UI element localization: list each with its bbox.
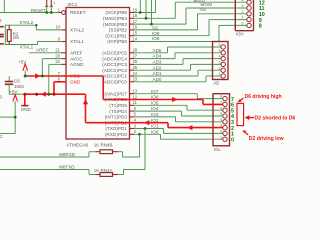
wire GND rail highlighted — [25, 93, 86, 95]
wire XTAL2 left vertical — [4, 25, 6, 45]
wire SS/PB2 net — [134, 29, 197, 31]
pin 27 (ADC4)PC4 — [130, 58, 135, 60]
wire XTAL2 net — [5, 24, 36, 26]
wire IO1/PD1 net — [134, 128, 163, 130]
connector AD — [213, 42, 229, 80]
IC ZIC1 ATMEGA8 body — [66, 8, 130, 140]
svg-text:(T0)PD4: (T0)PD4 — [109, 109, 127, 114]
wire IO9/PB1 net — [134, 35, 209, 37]
pin 14 (ICP)PB0 — [130, 41, 135, 43]
svg-text:IOH: IOH — [236, 31, 243, 36]
wire GND pin 8 highlighted — [54, 81, 67, 83]
svg-text:2: 2 — [220, 130, 222, 134]
svg-text:XTAL2: XTAL2 — [20, 20, 34, 25]
wire AD4/PC4 net — [134, 58, 175, 60]
wire M8TXD net — [0, 169, 89, 171]
resistor R2 1M — [8, 25, 10, 29]
svg-text:AD5: AD5 — [153, 48, 162, 53]
pin 9 XTAL1 — [61, 41, 66, 43]
wire XTAL1 net — [5, 44, 37, 46]
annotation arrow from D2 — [244, 132, 248, 135]
wire MOSI/PB3 net — [134, 23, 186, 25]
connector IOL pin 3 circle — [223, 125, 227, 129]
junction +5V net — [14, 116, 17, 119]
svg-text:2: 2 — [219, 66, 221, 70]
pin 4 (INT0)PD2 — [130, 122, 135, 124]
svg-text:(MISO)PB4: (MISO)PB4 — [103, 16, 127, 21]
connector IOH — [234, 0, 236, 31]
svg-text:AREF: AREF — [36, 48, 48, 53]
ground symbol GND — [24, 94, 26, 105]
svg-text:AD: AD — [214, 80, 220, 85]
pin 25 (ADC2)PC2 — [130, 69, 135, 71]
wire SCK/PB5 net with ICSP riser — [134, 12, 155, 14]
svg-text:AVCC: AVCC — [70, 56, 83, 61]
pin 7 VCC — [61, 75, 66, 77]
svg-text:21: 21 — [55, 48, 60, 53]
pin 12 (AIN0)PD6 — [130, 99, 135, 101]
svg-text:24: 24 — [132, 71, 137, 76]
wire IO8/PB0 net — [134, 41, 219, 43]
connector IOL — [213, 94, 230, 146]
pin 16 (SS)PB2 — [130, 29, 135, 31]
svg-text:1K RN4A: 1K RN4A — [94, 168, 113, 173]
svg-text:100n: 100n — [14, 84, 25, 89]
wire MISO/PB4 net — [134, 17, 175, 19]
wire IO0/PD0 net — [134, 133, 160, 135]
junction +5V rail — [24, 75, 27, 78]
svg-text:IO9: IO9 — [152, 31, 160, 36]
wire RN4A to PD1 — [118, 174, 123, 176]
wire +5V net exits left — [0, 133, 15, 135]
pin 10 XTAL2 — [61, 29, 66, 31]
svg-text:5: 5 — [219, 49, 221, 53]
pin 18 (MISO)PB4 — [130, 17, 135, 19]
connector AD pin 5 circle — [221, 51, 225, 55]
annotation box D2 shorted to D6 — [237, 103, 244, 125]
wire IOL pin2 return highlighted IO2 — [168, 127, 223, 129]
svg-text:IO8: IO8 — [152, 36, 160, 41]
svg-text:D6 driving high: D6 driving high — [245, 94, 282, 100]
svg-text:3: 3 — [242, 4, 244, 8]
connector IOH pin 4 circle — [247, 0, 251, 4]
junction on RESET net — [45, 11, 48, 14]
wire RN4B to PD0 — [118, 151, 122, 153]
wire IO7/PD7 net — [134, 93, 197, 95]
svg-text:C6: C6 — [14, 78, 20, 83]
svg-text:M8TXD: M8TXD — [59, 164, 75, 169]
svg-text:GND: GND — [70, 80, 81, 85]
svg-text:3: 3 — [219, 61, 221, 65]
resistor RN4B 1K — [89, 151, 95, 153]
svg-text:+5V: +5V — [18, 59, 27, 64]
svg-text:10: 10 — [55, 25, 60, 30]
svg-text:C: C — [0, 134, 3, 139]
pin 6 (T0)PD4 — [130, 110, 135, 112]
svg-text:(ADC5)PC5: (ADC5)PC5 — [102, 51, 127, 56]
svg-text:RESET: RESET — [31, 8, 47, 13]
wire IO3/PD3 net — [134, 116, 175, 118]
wire PD6 net highlighted IO6 — [103, 99, 203, 101]
annotation arrow to short box — [248, 117, 254, 119]
svg-text:11: 11 — [133, 100, 138, 105]
wire RESET net from top edge — [3, 0, 5, 13]
svg-text:(SCK)PB5: (SCK)PB5 — [105, 10, 127, 15]
svg-text:4: 4 — [220, 118, 222, 122]
svg-text:(RXD)PD0: (RXD)PD0 — [105, 132, 128, 137]
pin 19 (SCK)PB5 — [130, 12, 135, 14]
connector IOL pin 6 circle — [223, 108, 227, 112]
pin 23 (ADC0)PC0 — [130, 81, 135, 83]
connector IOL pin 1 circle — [223, 137, 227, 141]
svg-text:AD4: AD4 — [153, 54, 162, 59]
connector IOL pin 2 circle — [223, 131, 227, 135]
resistor RN4A 1K — [89, 174, 95, 176]
svg-text:13: 13 — [132, 89, 137, 94]
svg-text:15: 15 — [132, 31, 137, 36]
pin 20 AVCC — [61, 58, 66, 60]
connector AD pin 3 circle — [221, 62, 225, 66]
svg-text:22: 22 — [55, 59, 60, 64]
pin 21 AREF — [61, 52, 66, 54]
svg-text:AD2: AD2 — [153, 65, 162, 70]
svg-text:28: 28 — [132, 48, 137, 53]
junction GND rail — [35, 93, 38, 96]
pin 26 (ADC3)PC3 — [130, 63, 135, 65]
svg-text:+5V: +5V — [9, 90, 18, 95]
svg-text:IOL: IOL — [214, 147, 221, 152]
svg-text:6: 6 — [219, 43, 221, 47]
svg-text:(T1)PD5: (T1)PD5 — [109, 103, 127, 108]
connector AD pin 6 circle — [221, 45, 225, 49]
svg-text:18: 18 — [132, 13, 137, 18]
svg-text:16: 16 — [132, 25, 137, 30]
svg-text:8: 8 — [220, 95, 222, 99]
svg-text:2: 2 — [242, 10, 244, 14]
svg-text:(MOSI)PB3: (MOSI)PB3 — [103, 22, 127, 27]
junction XTAL2 — [35, 24, 37, 26]
wire AVCC net — [42, 58, 61, 60]
wire AD5/PC5 net — [134, 52, 167, 54]
junction PD1 to serial net — [144, 127, 147, 130]
svg-text:(AIN1)PD7: (AIN1)PD7 — [104, 91, 127, 96]
diode D1 lead stub (cut at top) — [50, 0, 52, 6]
connector IOL pin 8 circle — [223, 96, 227, 100]
svg-text:(ADC4)PC4: (ADC4)PC4 — [102, 56, 127, 61]
annotation arrow to D6 — [240, 98, 244, 101]
svg-text:XTAL1: XTAL1 — [70, 39, 84, 44]
svg-text:IO3: IO3 — [151, 112, 159, 117]
wire +5V to VCC highlighted — [25, 75, 66, 77]
svg-text:D2 driving low: D2 driving low — [249, 136, 284, 142]
wire RESET net to pin 1 — [0, 12, 59, 14]
svg-text:26: 26 — [132, 59, 137, 64]
pin 13 (AIN1)PD7 — [130, 93, 135, 95]
svg-text:25: 25 — [132, 65, 137, 70]
svg-text:0: 0 — [242, 22, 244, 26]
junction PD0 to serial net — [138, 133, 141, 136]
pin 15 (OC1)PB1 — [130, 35, 135, 37]
connector IOL pin 7 circle — [223, 102, 227, 106]
svg-text:AD1: AD1 — [153, 71, 162, 76]
svg-text:AGND: AGND — [70, 62, 84, 67]
svg-text:1: 1 — [219, 72, 221, 76]
pin 11 (T1)PD5 — [130, 104, 135, 106]
wire AD2/PC2 net — [134, 69, 190, 71]
svg-text:1: 1 — [53, 1, 55, 5]
current arrow into VCC — [35, 73, 40, 78]
svg-text:AREF: AREF — [70, 51, 83, 56]
svg-text:IO0: IO0 — [151, 129, 159, 134]
svg-text:IO4: IO4 — [151, 106, 159, 111]
svg-text:5: 5 — [220, 112, 222, 116]
svg-text:27: 27 — [132, 53, 137, 58]
connector IOH pin 0 circle — [247, 23, 251, 27]
pin 3 (TXD)PD1 — [130, 128, 135, 130]
current arrow D6 driving high — [172, 97, 177, 102]
svg-text:4: 4 — [242, 0, 244, 2]
pin 22 AGND — [61, 63, 66, 65]
connector IOL pin 4 circle — [223, 120, 227, 124]
svg-text:0: 0 — [231, 137, 234, 143]
svg-text:IO1: IO1 — [151, 124, 159, 129]
svg-text:XTAL1: XTAL1 — [20, 44, 34, 49]
connector IOH pin 3 circle — [247, 6, 251, 10]
svg-text:XTAL2: XTAL2 — [70, 28, 84, 33]
svg-text:(ICP)PB0: (ICP)PB0 — [107, 39, 127, 44]
connector IOH pin 1 circle — [247, 17, 251, 21]
svg-text:4: 4 — [219, 55, 221, 59]
pin 28 (ADC5)PC5 — [130, 52, 135, 54]
svg-text:D2 shorted to D6: D2 shorted to D6 — [255, 116, 296, 122]
svg-text:(ADC2)PC2: (ADC2)PC2 — [102, 68, 127, 73]
svg-text:1: 1 — [220, 135, 222, 139]
svg-text:ATMEGA8: ATMEGA8 — [67, 142, 89, 147]
wire AD3/PC3 net — [134, 63, 183, 65]
svg-text:(ADC3)PC3: (ADC3)PC3 — [102, 62, 127, 67]
svg-text:ZIC1: ZIC1 — [68, 2, 78, 7]
wire AD1/PC1 net — [134, 75, 198, 77]
connector AD pin 4 circle — [221, 56, 225, 60]
wire PD2 internal to GND highlighted — [85, 94, 87, 123]
pin 1 RESET with inversion bubble — [59, 12, 61, 14]
current arrow toward ground symbol — [41, 92, 46, 97]
wire IO5/PD5 net — [134, 104, 187, 106]
connector IOH pin 2 circle — [247, 12, 251, 16]
wire VCC internal to PD6 highlighted — [66, 75, 103, 77]
connector IOL pin 5 circle — [223, 114, 227, 118]
svg-text:IO5: IO5 — [151, 100, 159, 105]
svg-text:1: 1 — [242, 16, 244, 20]
svg-text:RESET: RESET — [70, 10, 86, 15]
wire M8RXD net — [0, 156, 89, 158]
svg-text:1M: 1M — [13, 35, 20, 40]
svg-text:23: 23 — [132, 77, 137, 82]
resistor R1 lead stub (cut at top) — [46, 0, 48, 6]
svg-text:AD3: AD3 — [153, 60, 162, 65]
current arrow into PD2 — [144, 120, 149, 125]
svg-text:8: 8 — [259, 24, 262, 30]
wire AD0/PC0 net — [134, 81, 206, 83]
crystal Q1 plates cut at left edge — [0, 26, 4, 28]
svg-text:(TXD)PD1: (TXD)PD1 — [105, 126, 127, 131]
svg-text:IO7: IO7 — [151, 89, 159, 94]
svg-text:GND: GND — [21, 107, 32, 112]
svg-text:SS: SS — [200, 7, 206, 12]
svg-text:12: 12 — [132, 94, 137, 99]
wire C6 to GND rail — [9, 93, 25, 95]
capacitor C6 100n — [8, 76, 10, 81]
svg-text:17: 17 — [132, 19, 137, 24]
pin 5 (INT1)PD3 — [130, 116, 135, 118]
svg-text:20: 20 — [55, 53, 60, 58]
pin 24 (ADC1)PC1 — [130, 75, 135, 77]
current arrow toward GND — [83, 99, 88, 104]
svg-text:M8RXD: M8RXD — [59, 152, 76, 157]
connector AD pin 1 circle — [221, 74, 225, 78]
svg-text:(SS)PB2: (SS)PB2 — [109, 28, 128, 33]
svg-text:1K RN4B: 1K RN4B — [94, 142, 113, 147]
pin 17 (MOSI)PB3 — [130, 23, 135, 25]
svg-text:19: 19 — [132, 7, 137, 12]
svg-text:(INT1)PD3: (INT1)PD3 — [105, 115, 128, 120]
svg-text:(ADC0)PC0: (ADC0)PC0 — [102, 80, 127, 85]
wire AREF net — [29, 52, 61, 54]
svg-text:14: 14 — [132, 36, 137, 41]
svg-text:6: 6 — [220, 106, 222, 110]
svg-text:(OC1)PB1: (OC1)PB1 — [105, 33, 127, 38]
wire IO4/PD4 net — [134, 110, 181, 112]
wire +5V branch from left edge — [0, 116, 15, 118]
wire AGND net — [49, 63, 61, 65]
pin 2 (RXD)PD0 — [130, 133, 135, 135]
svg-text:AD0: AD0 — [153, 77, 162, 82]
svg-text:(ADC1)PC1: (ADC1)PC1 — [102, 74, 127, 79]
pin 8 GND — [61, 81, 66, 83]
connector AD pin 2 circle — [221, 68, 225, 72]
